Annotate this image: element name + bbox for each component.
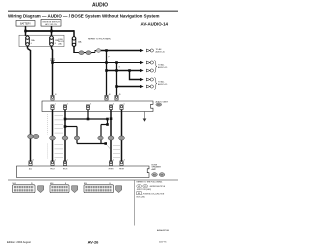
pin 1 audio unit FR LH+ [51,105,54,110]
svg-text:FR LH: FR LH [50,169,54,171]
svg-text:FR RH: FR RH [109,169,114,171]
diamond arrow [140,85,144,88]
svg-text:8: 8 [33,159,34,161]
svg-text:JUNCTION (SMJ): JUNCTION (SMJ) [137,189,152,191]
fuse block J/B [19,35,64,46]
fuse F2 [50,36,54,46]
vertical trunk x116.5 [116,63,118,96]
open arrow connector [146,61,150,64]
svg-text:FR LH: FR LH [63,169,67,171]
pin symbol bus2 top of audio unit [51,95,54,100]
svg-text:AMP.: AMP. [152,168,157,171]
branch corner x116.5 to row y86.5 [117,86,141,88]
svg-text:AV-26: AV-26 [88,239,100,244]
wire pin x88 down [87,110,89,120]
svg-text:3: 3 [124,159,125,161]
pin 4 bose amp FR RH+ [109,161,112,166]
svg-text:10A: 10A [31,39,35,42]
svg-text:M1: M1 [138,186,140,188]
pin symbol x106.5 top of audio unit [105,95,108,100]
connector oval pair [79,51,84,55]
wire row3 y70.5 [107,70,141,72]
svg-text:REFER TO THE FOLLOWING.: REFER TO THE FOLLOWING. [137,182,164,184]
connector tag P2 [72,186,78,193]
pin 2 audio unit FR LH- [63,105,66,110]
svg-text:Wiring Diagram — AUDIO — / BOS: Wiring Diagram — AUDIO — / BOSE System W… [8,13,159,18]
pin 2 bose amp FR LH+ [51,161,54,166]
junction dot A [24,30,27,33]
ignition switch box [41,20,61,27]
svg-text:AUDIO-15: AUDIO-15 [156,51,166,54]
separator line [8,179,178,181]
svg-text:46: 46 [109,94,111,96]
diamond arrow [140,78,144,81]
bose amp box U2 [17,166,150,178]
fuse F3 fusible link [72,37,76,47]
svg-text:AKIA0487GB: AKIA0487GB [157,229,170,232]
svg-text:4: 4 [113,159,114,161]
svg-text:5: 5 [124,104,125,106]
svg-text:2: 2 [55,159,56,161]
bus 2 ACC feed vertical [51,46,53,49]
junction wire y119 [65,118,108,120]
svg-text:AUDIO-15: AUDIO-15 [158,66,168,69]
shield ladder upper left pair [48,114,64,135]
wire main feed horizontal [26,30,75,32]
pin 5 audio unit FR RH- [120,105,123,110]
junction dot B [50,30,53,33]
connector oval FR LH- [62,136,68,140]
connector tag P1 [38,186,44,193]
wire x101 down [100,125,102,144]
header rule [8,10,178,13]
wire fuse3 down [73,46,75,53]
svg-text:AV-AUDIO-14: AV-AUDIO-14 [141,22,169,27]
svg-text:M43: M43 [157,104,160,106]
shield drain y143.5 [77,143,106,145]
branch corner x129.5 to row y79.5 [130,71,141,80]
svg-text:B30: B30 [153,174,156,176]
speaker wire FR LH- x65 [64,110,66,162]
pin 1 bose amp FR LH- [63,161,66,166]
inline connector on bus 2 [50,58,54,60]
junction dot row1 [105,49,108,52]
svg-text:6: 6 [31,43,32,45]
svg-text:10A: 10A [78,41,82,44]
connector detail B30 [84,185,114,193]
pin 8 bose amp ACC [29,161,32,166]
wire row1 [101,50,140,52]
audio unit box U1 [42,101,153,112]
long wire y62.5 [53,62,141,64]
pin 3 bose amp FR RH- [120,161,123,166]
connector detail M44 [50,185,69,193]
svg-text:10: 10 [55,94,57,96]
svg-text:1: 1 [67,159,68,161]
svg-text:45: 45 [119,94,121,96]
svg-text:AUDIO: AUDIO [92,3,108,9]
branch y126.5 [65,126,77,128]
diamond arrow [140,61,144,64]
speaker wire FR LH+ x52.5 [52,110,54,162]
wire ignition drop [51,26,53,37]
open arrow connector [146,49,150,52]
svg-text:-SUPER MULTIPLE: -SUPER MULTIPLE [149,186,166,188]
svg-text:BOX (J/B): BOX (J/B) [137,196,145,198]
wire corner to fuse 3 [73,30,75,37]
drop x107.5 [107,119,109,125]
divider vertical [134,180,136,226]
svg-text:BATTERY: BATTERY [20,23,31,26]
battery box [16,21,35,27]
connector tag P3 [116,186,122,193]
svg-text:(J/B): (J/B) [58,43,62,45]
wire step up to row1 [95,51,96,53]
speaker wire FR RH+ x111 [110,110,112,162]
pin 3 audio unit shield [86,105,89,110]
wire battery drop [25,26,27,36]
junction dots y62.5 [105,61,108,64]
diamond arrow [140,49,144,52]
svg-text:B31: B31 [161,174,164,176]
fuse F1 [26,36,30,46]
connector oval pair on bus1 [28,134,34,138]
svg-text:4: 4 [113,104,114,106]
svg-text:-FUSE BLOCK-JUNCTION: -FUSE BLOCK-JUNCTION [143,193,165,195]
svg-text:B75: B75 [144,186,147,188]
bus 1 battery feed vertical [27,46,29,49]
connector oval FR LH+ [50,136,56,140]
vertical trunk x106.5 [106,51,108,96]
svg-text:AUDIO-15: AUDIO-15 [158,83,168,86]
shield ladder right pair [113,146,120,158]
speaker wire FR RH- x121.5 [121,110,123,162]
pin symbol x116.5 top of audio unit [115,95,118,100]
open arrow connector [146,85,150,88]
diamond arrow [140,69,144,72]
svg-text:3: 3 [90,104,91,106]
connector oval row1 [96,49,101,53]
pin 4 audio unit FR RH+ [109,105,112,110]
svg-text:1: 1 [55,104,56,106]
shield ladder lower left pair [48,144,64,159]
brace rows2-3 [154,61,157,73]
arrow to next below audio unit [144,112,146,119]
svg-text:2: 2 [67,104,68,106]
svg-text:2007 T6: 2007 T6 [159,242,167,244]
wire fuse3 jog [74,52,95,54]
connector detail M43 [13,185,36,193]
wire x77 down [76,127,78,144]
svg-text:FR RH: FR RH [119,169,124,171]
junction dot on bus 2 [51,61,54,64]
svg-text:ACC OR ON: ACC OR ON [45,23,57,26]
svg-text:REFER TO PG-POWER.: REFER TO PG-POWER. [88,38,112,40]
svg-text:8: 8 [55,43,56,45]
open arrow connector [146,69,150,72]
svg-text:M4: M4 [138,193,140,195]
open arrow connector [146,78,150,81]
brace rows4-5 [154,78,157,90]
jog y124.5 [101,124,108,126]
svg-text:Edition: 2004 August: Edition: 2004 August [7,240,31,244]
